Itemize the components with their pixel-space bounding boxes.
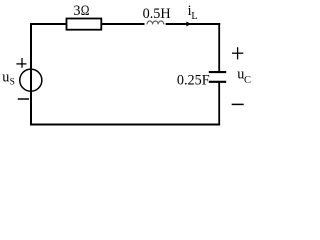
polarity: + sign for uS [16, 58, 26, 68]
label: source voltage uS [2, 69, 15, 87]
wire: bottom horizontal segment [30, 124, 220, 126]
capacitor C1 (0.25F) plates [209, 72, 226, 82]
label: current iL [188, 3, 198, 22]
svg-text:C: C [244, 75, 251, 86]
svg-text:L: L [191, 11, 197, 22]
wire: top-middle horizontal segment [102, 23, 145, 25]
label: voltage uC [237, 66, 251, 86]
wire: left vertical segment [30, 23, 32, 125]
svg-text:Ω: Ω [81, 3, 90, 19]
wire: right vertical lower segment [218, 82, 220, 126]
arrow: current direction for iL [186, 22, 191, 27]
svg-text:3: 3 [73, 3, 80, 19]
wire: right vertical upper segment [218, 23, 220, 72]
svg-text:S: S [10, 78, 15, 88]
label: resistor value 3 Ω [73, 3, 89, 19]
wire: top-left horizontal segment [30, 23, 67, 25]
wire: top-right horizontal segment [166, 23, 221, 25]
polarity: − sign for uS [18, 98, 29, 100]
polarity: + sign for uC [232, 47, 243, 59]
inductor L1 (0.5H) coil [147, 21, 164, 25]
svg-text:0.25F: 0.25F [177, 73, 210, 89]
resistor R1 (3 ohm) [67, 19, 102, 30]
voltage source U1 (uS) circle [20, 69, 42, 91]
svg-text:u: u [2, 69, 9, 85]
polarity: − sign for uC [232, 103, 244, 105]
svg-text:0.5H: 0.5H [143, 6, 171, 22]
